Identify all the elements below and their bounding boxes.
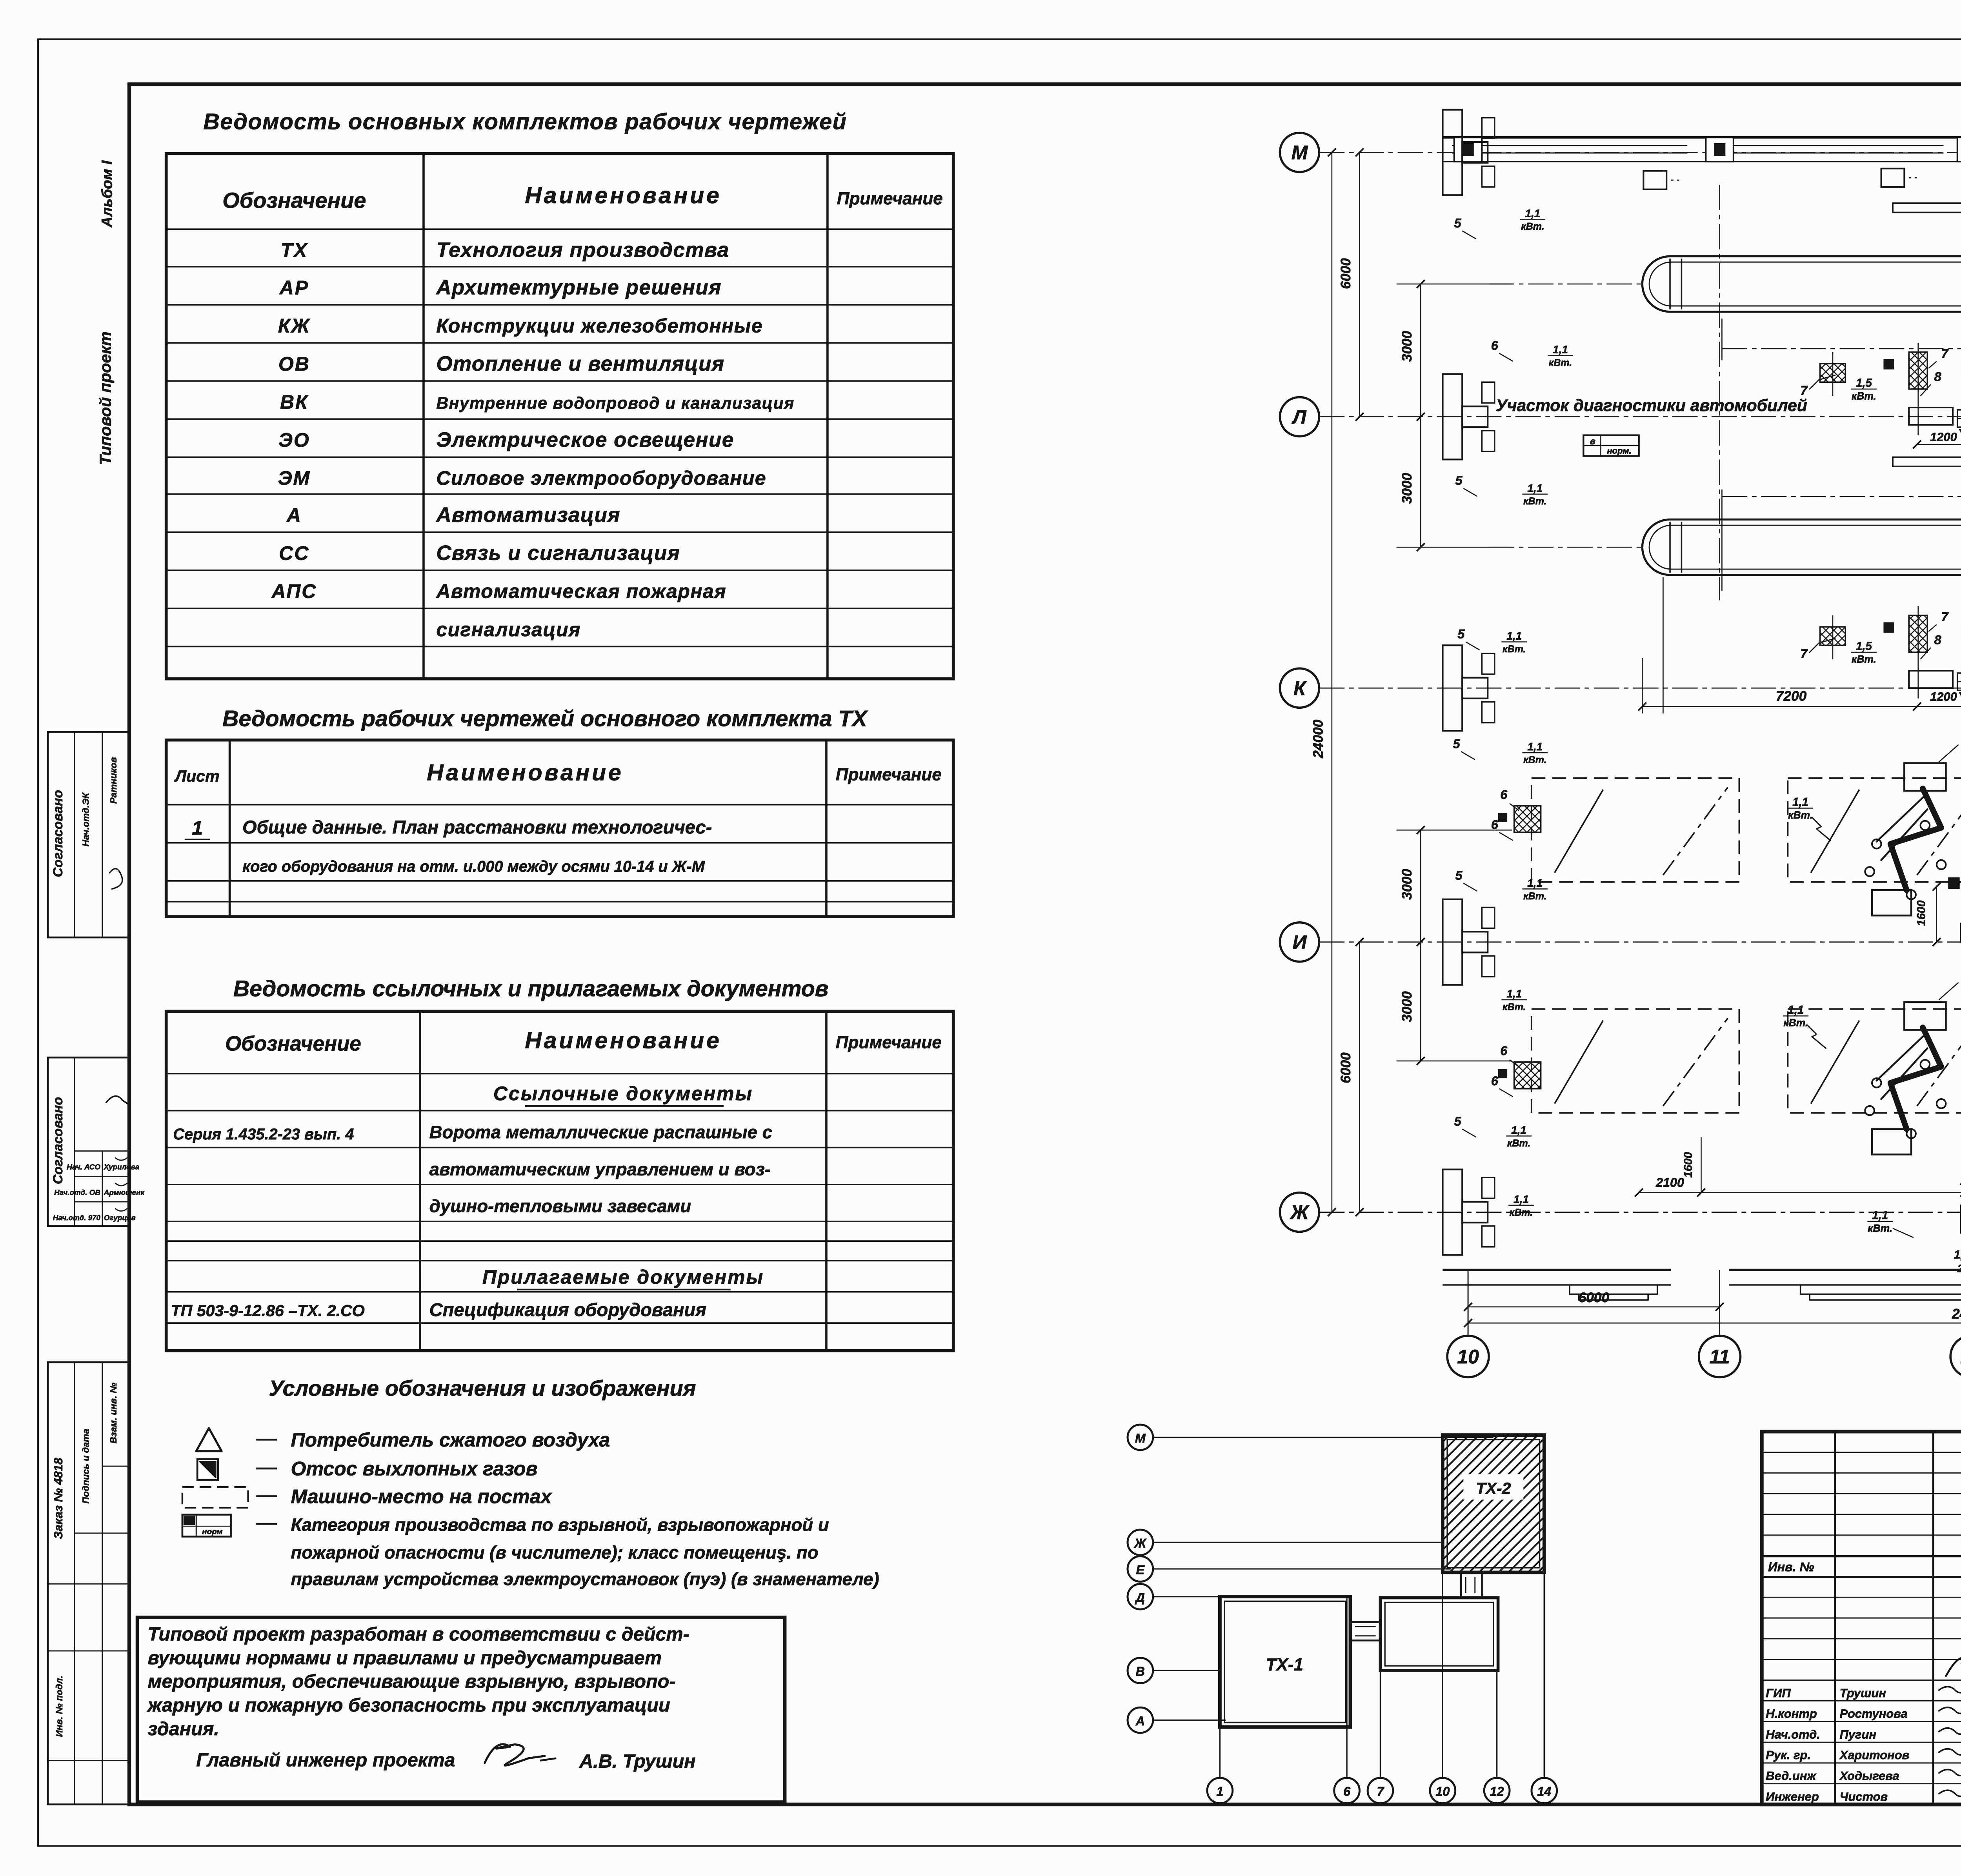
svg-text:Спецификация оборудования: Спецификация оборудования (429, 1299, 706, 1320)
svg-text:кВт.: кВт. (1868, 1223, 1892, 1234)
svg-text:7: 7 (1941, 610, 1949, 624)
svg-text:И: И (1292, 931, 1307, 953)
svg-text:1,1: 1,1 (1511, 1124, 1526, 1136)
svg-text:Обозначение: Обозначение (225, 1032, 361, 1055)
svg-text:Ж: Ж (1289, 1201, 1310, 1223)
svg-text:Лист: Лист (174, 767, 220, 785)
svg-text:кВт.: кВт. (1503, 644, 1526, 655)
svg-text:Категория производства по взры: Категория производства по взрывной, взры… (291, 1515, 829, 1535)
svg-text:8: 8 (1934, 633, 1941, 647)
svg-text:1,1: 1,1 (1525, 207, 1540, 219)
svg-text:24000: 24000 (1310, 719, 1326, 759)
svg-text:кВт.: кВт. (1523, 891, 1547, 902)
svg-text:Силовое электрооборудование: Силовое электрооборудование (436, 467, 766, 489)
svg-text:А.В. Трушин: А.В. Трушин (579, 1750, 696, 1772)
svg-text:ЭО: ЭО (278, 429, 310, 451)
svg-text:М: М (1292, 142, 1308, 164)
svg-text:1,1: 1,1 (1872, 1209, 1888, 1222)
svg-text:Д: Д (1135, 1590, 1145, 1605)
svg-text:В: В (1136, 1664, 1145, 1678)
svg-text:1600: 1600 (1682, 1152, 1695, 1178)
svg-text:Инженер: Инженер (1766, 1790, 1819, 1803)
svg-text:кВт.: кВт. (1783, 1017, 1808, 1029)
svg-text:6000: 6000 (1579, 1290, 1610, 1305)
svg-text:Автоматизация: Автоматизация (435, 503, 620, 526)
svg-text:кВт.: кВт. (1852, 390, 1876, 402)
svg-text:Наименование: Наименование (525, 1028, 721, 1054)
svg-text:Л: Л (1292, 406, 1307, 428)
svg-text:Главный инженер проекта: Главный инженер проекта (196, 1749, 455, 1770)
svg-text:Ходыгева: Ходыгева (1839, 1769, 1899, 1783)
svg-text:Трушин: Трушин (1840, 1686, 1886, 1700)
svg-text:Хурилова: Хурилова (104, 1163, 139, 1171)
svg-text:24000: 24000 (1952, 1306, 1961, 1321)
svg-text:1200: 1200 (1930, 430, 1957, 444)
svg-text:1: 1 (192, 817, 203, 839)
svg-text:АР: АР (279, 277, 309, 299)
svg-text:Технология производства: Технология производства (436, 238, 729, 262)
svg-text:Ведомость ссылочных и прилагае: Ведомость ссылочных и прилагаемых докуме… (233, 976, 829, 1001)
svg-text:кВт.: кВт. (1852, 653, 1876, 665)
svg-text:Типовой проект: Типовой проект (96, 331, 115, 465)
svg-text:мероприятия, обеспечивающие вз: мероприятия, обеспечивающие взрывную, вз… (148, 1671, 676, 1692)
svg-text:Ведомость основных комплектов: Ведомость основных комплектов рабочих че… (204, 109, 847, 135)
svg-text:1200: 1200 (1930, 690, 1957, 704)
svg-text:ТХ: ТХ (280, 239, 308, 261)
svg-text:Нач.отд. ОВ: Нач.отд. ОВ (54, 1188, 100, 1196)
svg-text:1,1: 1,1 (1553, 344, 1568, 356)
svg-text:6: 6 (1500, 788, 1508, 802)
svg-text:норм.: норм. (1607, 446, 1631, 456)
svg-text:Обозначение: Обозначение (222, 188, 366, 213)
svg-text:1,1: 1,1 (1792, 795, 1808, 808)
svg-text:автоматическим управлением и в: автоматическим управлением и воз- (429, 1159, 771, 1179)
svg-text:А: А (286, 504, 302, 526)
svg-text:кВт.: кВт. (1523, 755, 1547, 766)
svg-text:ТП 503-9-12.86 –ТХ. 2.СО: ТП 503-9-12.86 –ТХ. 2.СО (171, 1301, 365, 1319)
svg-text:Ссылочные документы: Ссылочные документы (493, 1083, 753, 1104)
svg-text:3000: 3000 (1399, 869, 1415, 900)
svg-text:Потребитель сжатого воздуха: Потребитель сжатого воздуха (291, 1429, 610, 1451)
svg-text:Инв. № подл.: Инв. № подл. (54, 1676, 64, 1737)
svg-text:Примечание: Примечание (836, 765, 942, 784)
svg-text:кВт.: кВт. (1507, 1138, 1531, 1149)
svg-text:12: 12 (1490, 1784, 1504, 1798)
svg-text:кВт.: кВт. (1549, 357, 1572, 368)
svg-text:М: М (1135, 1431, 1146, 1445)
svg-text:Машино-место на постах: Машино-место на постах (291, 1485, 553, 1507)
svg-text:кВт.: кВт. (1521, 221, 1544, 232)
svg-text:кВт.: кВт. (1788, 809, 1813, 821)
svg-text:1,1: 1,1 (1527, 741, 1543, 753)
svg-text:душно-тепловыми завесами: душно-тепловыми завесами (429, 1196, 691, 1216)
svg-text:3000: 3000 (1399, 991, 1415, 1022)
svg-text:Условные обозначения и изображ: Условные обозначения и изображения (269, 1376, 696, 1401)
svg-text:1,5: 1,5 (1856, 640, 1872, 653)
svg-text:Электрическое освещение: Электрическое освещение (436, 428, 734, 451)
svg-text:Ворота металлические распашные: Ворота металлические распашные с (429, 1122, 772, 1142)
svg-text:вующими нормами и правилами и: вующими нормами и правилами и предусматр… (148, 1647, 662, 1669)
svg-text:Подпись и дата: Подпись и дата (81, 1429, 91, 1504)
svg-text:А: А (1135, 1714, 1145, 1728)
svg-text:ВК: ВК (280, 391, 309, 413)
svg-text:6000: 6000 (1338, 1052, 1353, 1083)
svg-text:Ведомость рабочих чертежей осн: Ведомость рабочих чертежей основного ком… (222, 706, 868, 731)
svg-text:К: К (1293, 677, 1307, 699)
svg-text:Конструкции железобетонные: Конструкции железобетонные (436, 315, 763, 337)
svg-text:Согласовано: Согласовано (51, 1097, 65, 1184)
svg-text:Архитектурные решения: Архитектурные решения (435, 276, 722, 299)
svg-text:Е: Е (1136, 1563, 1145, 1577)
svg-text:Ратников: Ратников (108, 757, 118, 804)
svg-text:КЖ: КЖ (278, 315, 311, 337)
svg-text:Отопление и вентиляция: Отопление и вентиляция (436, 352, 724, 375)
svg-text:5: 5 (1455, 868, 1463, 883)
svg-text:Примечание: Примечание (836, 1033, 942, 1052)
svg-text:1: 1 (1216, 1784, 1223, 1798)
svg-text:Нач.отд.ЭК: Нач.отд.ЭК (81, 792, 91, 846)
svg-text:Харитонов: Харитонов (1839, 1748, 1910, 1762)
svg-text:6: 6 (1491, 817, 1499, 832)
svg-text:Ростунова: Ростунова (1840, 1707, 1908, 1721)
svg-text:1,5: 1,5 (1856, 377, 1872, 389)
svg-text:6: 6 (1500, 1044, 1508, 1058)
svg-text:220б: 220б (1957, 1263, 1961, 1275)
svg-text:здания.: здания. (148, 1718, 219, 1740)
svg-text:1,1: 1,1 (1506, 988, 1522, 1000)
svg-text:Взам. инв. №: Взам. инв. № (108, 1383, 118, 1443)
svg-text:14: 14 (1537, 1784, 1551, 1798)
svg-text:6: 6 (1491, 338, 1499, 353)
svg-text:1,1: 1,1 (1527, 877, 1543, 889)
svg-text:8: 8 (1934, 369, 1941, 384)
svg-text:5: 5 (1455, 473, 1463, 488)
svg-text:Общие данные. План расстановки: Общие данные. План расстановки технологи… (242, 817, 712, 837)
svg-text:Огурцов: Огурцов (104, 1214, 136, 1222)
svg-text:кВт.: кВт. (1510, 1207, 1533, 1218)
svg-text:Серия 1.435.2-23 вып. 4: Серия 1.435.2-23 вып. 4 (173, 1126, 354, 1143)
svg-text:Альбом I: Альбом I (98, 160, 115, 228)
svg-text:Армюшенк: Армюшенк (104, 1188, 145, 1196)
svg-text:5: 5 (1454, 216, 1462, 230)
svg-text:Заказ № 4818: Заказ № 4818 (51, 1457, 65, 1539)
svg-text:6: 6 (1343, 1784, 1351, 1798)
svg-text:Участок диагностики автомобиле: Участок диагностики автомобилей (1496, 396, 1807, 415)
svg-text:Наименование: Наименование (525, 183, 721, 208)
svg-text:10: 10 (1457, 1346, 1479, 1368)
svg-text:7: 7 (1800, 647, 1808, 661)
svg-text:СС: СС (279, 542, 309, 564)
svg-text:7200: 7200 (1776, 689, 1807, 704)
svg-text:2100: 2100 (1655, 1175, 1684, 1190)
svg-text:Прилагаемые документы: Прилагаемые документы (482, 1266, 764, 1288)
svg-text:пожарной опасности (в числител: пожарной опасности (в числителе); класс … (291, 1543, 819, 1563)
svg-text:правилам устройства электроус: правилам устройства электроустановок (пу… (291, 1569, 879, 1589)
svg-text:Инв. №: Инв. № (1768, 1560, 1814, 1574)
svg-text:Н.контр: Н.контр (1766, 1707, 1817, 1721)
svg-text:ТХ-2: ТХ-2 (1476, 1479, 1511, 1498)
svg-text:Нач.отд. 970: Нач.отд. 970 (53, 1214, 101, 1222)
svg-text:кВт.: кВт. (1523, 496, 1547, 507)
svg-text:5: 5 (1454, 1114, 1462, 1128)
svg-text:3000: 3000 (1399, 473, 1415, 504)
svg-text:сигнализация: сигнализация (436, 619, 581, 640)
svg-text:Рук. гр.: Рук. гр. (1766, 1748, 1811, 1762)
svg-text:1,1: 1,1 (1788, 1003, 1804, 1016)
svg-text:кого оборудования на отм. и.00: кого оборудования на отм. и.000 между ос… (242, 858, 705, 875)
svg-text:1,0кВт.: 1,0кВт. (1954, 1248, 1961, 1261)
svg-text:1,1: 1,1 (1513, 1193, 1529, 1205)
svg-text:7: 7 (1800, 384, 1808, 398)
svg-text:Пугин: Пугин (1840, 1727, 1877, 1741)
svg-text:Наименование: Наименование (427, 760, 623, 786)
svg-text:5: 5 (1453, 737, 1461, 751)
svg-text:Примечание: Примечание (837, 189, 943, 208)
svg-text:11: 11 (1710, 1346, 1730, 1368)
svg-text:5: 5 (1457, 627, 1465, 641)
svg-text:Связь и сигнализация: Связь и сигнализация (436, 542, 680, 565)
svg-text:в: в (1590, 436, 1595, 446)
svg-text:6000: 6000 (1338, 258, 1353, 289)
svg-text:норм: норм (202, 1527, 223, 1536)
svg-text:10: 10 (1435, 1784, 1450, 1798)
svg-text:жарную и пожарную безопасность: жарную и пожарную безопасность при экспл… (147, 1695, 670, 1716)
svg-text:Типовой проект разработан в со: Типовой проект разработан в соответствии… (148, 1624, 689, 1645)
svg-text:Вед.инж: Вед.инж (1766, 1769, 1817, 1783)
svg-text:Нач.отд.: Нач.отд. (1766, 1727, 1820, 1741)
svg-text:кВт.: кВт. (1503, 1001, 1526, 1012)
svg-text:ЭМ: ЭМ (278, 467, 311, 489)
svg-text:1600: 1600 (1915, 900, 1928, 926)
svg-text:ГИП: ГИП (1766, 1686, 1791, 1700)
svg-text:Внутренние водопровод и канали: Внутренние водопровод и канализация (436, 394, 794, 413)
svg-text:АПС: АПС (271, 580, 317, 602)
svg-text:Нач. АСО: Нач. АСО (67, 1163, 100, 1171)
svg-text:Автоматическая пожарная: Автоматическая пожарная (435, 580, 726, 602)
svg-text:7: 7 (1377, 1784, 1384, 1798)
svg-text:3000: 3000 (1399, 331, 1415, 362)
svg-text:Отсос выхлопных газов: Отсос выхлопных газов (291, 1458, 538, 1480)
svg-text:ОВ: ОВ (278, 353, 310, 375)
svg-text:1,1: 1,1 (1506, 630, 1522, 642)
svg-text:Ж: Ж (1133, 1536, 1147, 1550)
svg-text:1,1: 1,1 (1527, 482, 1543, 494)
svg-text:ТХ-1: ТХ-1 (1266, 1655, 1303, 1674)
svg-text:Согласовано: Согласовано (51, 790, 65, 877)
svg-text:6: 6 (1491, 1074, 1499, 1088)
svg-text:Чистов: Чистов (1840, 1790, 1888, 1803)
